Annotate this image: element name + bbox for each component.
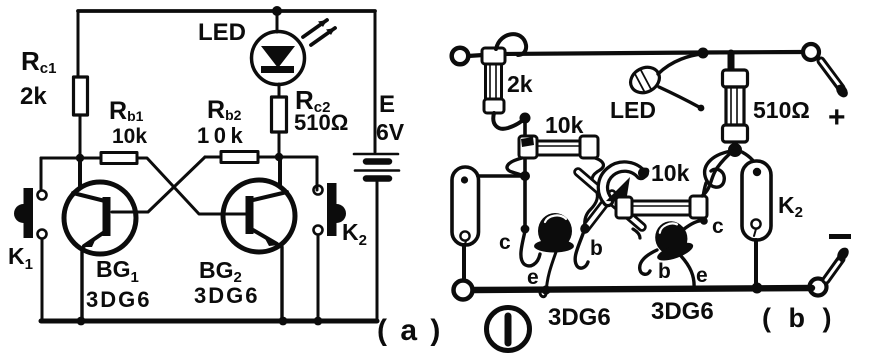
wire 10k-2 right lead curl up to 510 junction [702,151,733,196]
transistor Q1 dome [538,213,572,249]
LED pictorial dome [626,62,664,97]
wire 510 junction to K2 top [742,152,757,169]
transistor Q2 e lead [681,256,694,289]
svg-text:510Ω: 510Ω [294,110,348,135]
wire vertical rail to c terminal [523,120,527,227]
battery E plate short 2 [366,175,389,182]
battery E plate short 1 [366,158,389,165]
transistor BG2 collector [253,157,287,200]
LED D1 triangle [261,46,295,68]
wire LED to Rc2 [278,84,281,97]
switch K2 pill body [742,161,771,240]
wire K1 bottom lead [462,245,466,279]
wire K1 to bottom rail [41,239,44,321]
wire bottom rail [474,288,812,290]
node junction K2 on bottom rail [314,317,323,326]
wire base rail left [41,157,101,160]
svg-text:10k: 10k [545,112,584,138]
resistor Rb2 [221,152,258,163]
label 10k-2 [643,168,650,175]
wire node to K2 [279,157,317,190]
switch K2 actuator bar [327,183,337,236]
resistor 510 top lead [728,53,735,72]
resistor 2k bottom cap [484,99,504,113]
wire left drop to Rc1 [77,11,80,77]
wire K1 top to rail [478,174,523,178]
figure number circled 1 [487,308,530,351]
transistor BG2 emitter [253,230,277,244]
svg-text:3DG6: 3DG6 [86,287,151,312]
svg-text:K1: K1 [8,243,33,273]
transistor BG1 circle [64,182,136,254]
crossing strap 2 [585,194,612,229]
svg-text:3DG6: 3DG6 [194,283,259,308]
node solder blob 510 bottom [728,143,742,157]
crossing strap 1 [578,172,642,227]
svg-text:Rb1: Rb1 [109,97,144,125]
svg-text:K2: K2 [342,219,367,249]
switch K1 bottom hole [460,231,469,240]
wire BG1 emitter to bottom rail [80,249,83,321]
resistor 510 top cap [723,70,748,87]
svg-text:2k: 2k [507,71,533,97]
svg-text:E: E [379,91,395,118]
wire Rb2 left diagonal to BG1 base [112,157,205,212]
switch K1 terminal bottom [38,230,47,239]
transistor Q1 b lead [581,224,590,233]
node junction LED on top rail [272,6,282,16]
node junction Rc1/Rb1/BG1 collector [76,154,84,162]
wire 10k-1 right lead zigzag to b terminal [585,158,604,226]
svg-text:e: e [527,266,539,289]
resistor 10k-1 left cap [519,136,537,158]
switch K2 bottom hole [751,219,760,228]
node junction K1 wire on rail [520,171,530,181]
switch K2 terminal top [314,186,323,195]
svg-text:6V: 6V [376,119,405,145]
resistor 10k-2 body [632,201,690,215]
terminal post top-right [803,44,819,60]
svg-text:LED: LED [198,19,246,46]
switch K1 terminal top [38,191,47,200]
wire LED lead upper [658,54,702,74]
resistor Rc1 [74,77,88,115]
battery + lead stub [821,61,841,88]
svg-text:3DG6: 3DG6 [548,304,611,331]
svg-text:e: e [696,264,708,287]
wire strap to Q2 b [633,229,640,238]
svg-text:b: b [590,237,603,260]
svg-text:LED: LED [610,97,656,123]
wire 10k-1 left lead [507,158,524,176]
switch K2 terminal bottom [314,226,323,235]
wire loop over 2k [496,34,526,55]
switch K1 actuator bar [24,188,34,238]
svg-text:510Ω: 510Ω [753,97,810,123]
resistor 510 bottom cap [723,125,748,142]
transistor Q2 b lead [640,250,657,274]
LED D1 cathode bar [261,66,294,73]
svg-text:( b ): ( b ) [762,303,836,333]
svg-text:c: c [499,231,511,254]
wire bottom rail [41,319,377,324]
wire left rail to K1 [40,158,43,190]
wire Rb2 right lead to node [258,156,279,159]
resistor Rb1 [101,153,137,164]
battery E plate long 2 [355,169,399,172]
node solder blob LED on rail [698,48,709,59]
label minus [829,234,851,239]
terminal post bottom-left [454,281,473,300]
svg-text:K2: K2 [778,192,803,221]
switch K1 pill body [452,167,479,245]
transistor BG1 collector [73,158,105,201]
terminal post bottom-right [810,279,827,296]
transistor Q1 c lead [521,231,540,266]
node junction BG2 emitter on bottom rail [279,317,288,326]
resistor 510 body [726,87,744,127]
LED D1 circle [252,32,305,85]
node junction BG1 emitter on bottom rail [77,317,86,326]
svg-text:2k: 2k [20,83,47,110]
node solder blob K2 on rail [752,283,763,294]
transistor Q2 c lead [684,221,703,229]
svg-text:( a ): ( a ) [377,314,443,347]
resistor 10k-2 right cap [690,196,707,218]
svg-text:Rb2: Rb2 [207,96,242,124]
wire Rc1 to node [79,115,82,158]
resistor 2k body [486,64,502,101]
transistor BG2 base bar [246,196,254,234]
node junction Q1 e on rail [541,285,550,294]
svg-text:Rc1: Rc1 [21,46,56,77]
resistor 10k-2 left cap [616,197,632,218]
LED light arrow 2 [311,28,335,45]
svg-text:10k: 10k [197,123,247,148]
terminal post top-left [452,48,469,65]
wire top rail [78,9,375,13]
battery E plate long 1 [354,153,398,156]
wire curl of 10k-2 left lead [603,167,641,201]
svg-text:BG1: BG1 [96,256,139,286]
wire 510 junction to transistor2 c [705,151,731,187]
svg-text:10k: 10k [112,125,147,148]
LED light arrow 1 [303,20,327,37]
wire Rb1 to diagonal [137,158,246,214]
transistor BG1 base bar [103,197,111,236]
transistor Q1 e lead [540,252,556,297]
transistor BG2 circle [223,180,295,252]
wire Rb2 left lead [205,156,221,159]
node solder blob 2k/vertical rail [520,113,531,124]
svg-text:BG2: BG2 [199,257,242,286]
svg-text:+: + [828,101,846,134]
switch K2 button bump [337,204,347,223]
wire LED lead lower [659,87,699,107]
switch K1 button bump [14,204,23,223]
wire top rail [468,52,803,56]
transistor BG1 emitter [84,231,106,246]
wire battery to bottom rail [376,182,379,321]
svg-text:c: c [712,215,724,238]
battery - lead stub [826,259,841,280]
node junction Rc2/Rb2/BG2 collector [275,153,283,161]
resistor 10k-1 right cap [580,136,598,158]
switch K1 top hole [461,176,468,183]
wire 2k bottom lead [493,113,524,129]
resistor 2k top cap [482,48,505,64]
wire K2 bottom lead [754,240,758,283]
switch K2 top hole [753,168,761,176]
wire Rc2 to node [278,132,281,157]
LED D1 top lead [276,11,279,32]
wire BG2 emitter to bottom rail [280,247,283,321]
svg-text:b: b [658,260,671,283]
resistor 10k-1 body [537,141,580,155]
svg-text:10k: 10k [651,160,690,186]
wire K2 to bottom rail [317,235,320,321]
resistor Rc2 [272,97,287,132]
transistor Q2 dome [647,216,696,264]
svg-text:3DG6: 3DG6 [651,298,714,325]
wire right rail to battery [374,11,377,152]
